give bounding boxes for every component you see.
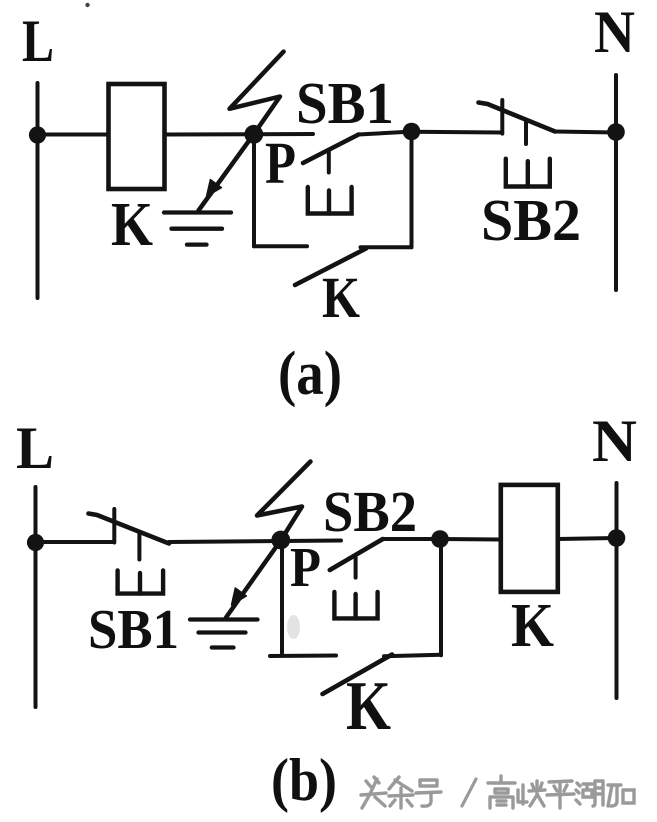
relay coil K (a) (109, 84, 165, 189)
pushbutton SB2 NO contact blade (b) (330, 539, 383, 570)
wire left rail L (b) (34, 487, 38, 707)
smudge near branch (b) (287, 615, 300, 639)
wire right rail N (b) (615, 483, 619, 698)
watermark char 加 (608, 785, 634, 806)
watermark char 峡 (518, 781, 545, 806)
ground symbol (b) (190, 620, 258, 648)
wire K-contact branch bottom right (a) (361, 245, 412, 249)
junction dot P (b) (271, 531, 290, 550)
pushbutton SB2 actuator stem (b) (354, 557, 358, 578)
pushbutton SB2 actuator stem (a) (524, 121, 528, 144)
pushbutton SB2 NC blade (a) (479, 103, 556, 132)
junction dot right branch (b) (431, 530, 449, 548)
pushbutton SB1 actuator stem (b) (137, 532, 141, 560)
svg-text:N: N (594, 0, 635, 65)
junction dot right rail (a) (607, 123, 625, 141)
svg-text:SB2: SB2 (323, 479, 417, 544)
lightning stroke arrow into node P (a) (199, 52, 284, 211)
watermark char 平 (547, 781, 574, 808)
pushbutton SB1 actuator stem (a) (327, 150, 331, 173)
watermark slash (462, 779, 476, 806)
pushbutton SB2 button cap (a) (506, 159, 550, 187)
svg-text:SB2: SB2 (481, 187, 581, 253)
svg-text:P: P (290, 537, 321, 599)
svg-text:SB1: SB1 (296, 70, 394, 136)
wire K-contact branch left vertical (a) (252, 135, 256, 247)
watermark 头条号 / 高峡平湖加 (361, 776, 634, 808)
wire K-contact branch right vertical (b) (439, 539, 443, 655)
wire coil to right rail (b) (558, 538, 617, 539)
svg-text:SB1: SB1 (88, 599, 179, 661)
wire junction to SB2 (a) (412, 130, 502, 135)
svg-text:K: K (346, 668, 391, 745)
wire K-contact branch left vertical (b) (280, 541, 284, 655)
pushbutton SB2 button cap (b) (334, 592, 377, 619)
svg-text:K: K (111, 191, 153, 259)
svg-text:N: N (592, 408, 637, 474)
junction dot P (a) (244, 125, 263, 144)
pushbutton SB1 button cap (b) (118, 570, 164, 593)
svg-text:P: P (265, 130, 296, 196)
wire K-contact branch bottom left (b) (270, 654, 336, 659)
wire coil to P (a) (165, 132, 314, 137)
wire K-contact branch bottom right (b) (384, 655, 441, 657)
lightning stroke arrow into node P (b) (226, 462, 311, 618)
pushbutton SB1 NC fixed contact tick (b) (112, 509, 116, 543)
wire left rail L (a) (36, 83, 40, 298)
wire SB2 to junction (b) (383, 537, 440, 541)
svg-text:K: K (511, 592, 554, 660)
speck noise top left (85, 3, 89, 7)
pushbutton SB1 button cap (a) (308, 187, 352, 214)
svg-text:(a): (a) (278, 340, 342, 408)
pushbutton SB1 NC blade (b) (89, 514, 170, 544)
watermark char 高 (488, 776, 515, 808)
wire SB1 to P (b) (169, 541, 341, 543)
wire K-contact branch bottom left (a) (254, 244, 307, 248)
relay contact K blade (a) (295, 249, 366, 286)
wire main line left (a) (38, 133, 109, 137)
junction dot right rail (b) (608, 529, 626, 547)
junction dot left rail (b) (27, 534, 44, 551)
watermark char 条 (389, 777, 413, 808)
wire SB1 to junction (a) (359, 132, 414, 135)
pushbutton SB2 NC fixed contact tick (a) (500, 100, 504, 134)
svg-text:L: L (16, 415, 54, 481)
wire right rail N (a) (614, 75, 618, 290)
junction dot left rail (a) (29, 126, 46, 143)
svg-text:L: L (22, 8, 54, 74)
junction dot right branch (a) (403, 123, 421, 141)
wire SB2 to right rail (a) (555, 132, 616, 133)
wire main line left (b) (36, 540, 114, 544)
svg-text:(b): (b) (271, 747, 337, 813)
svg-text:K: K (322, 265, 360, 330)
watermark char 号 (416, 780, 441, 806)
relay coil K (b) (501, 485, 558, 592)
pushbutton SB1 NO contact blade (a) (303, 135, 359, 164)
wire K-contact branch right vertical (a) (410, 132, 414, 248)
relay contact K blade (b) (323, 655, 393, 695)
ground symbol (a) (164, 213, 231, 245)
wire junction to coil (b) (440, 537, 501, 542)
watermark char 头 (361, 777, 386, 808)
watermark char 湖 (576, 781, 603, 806)
